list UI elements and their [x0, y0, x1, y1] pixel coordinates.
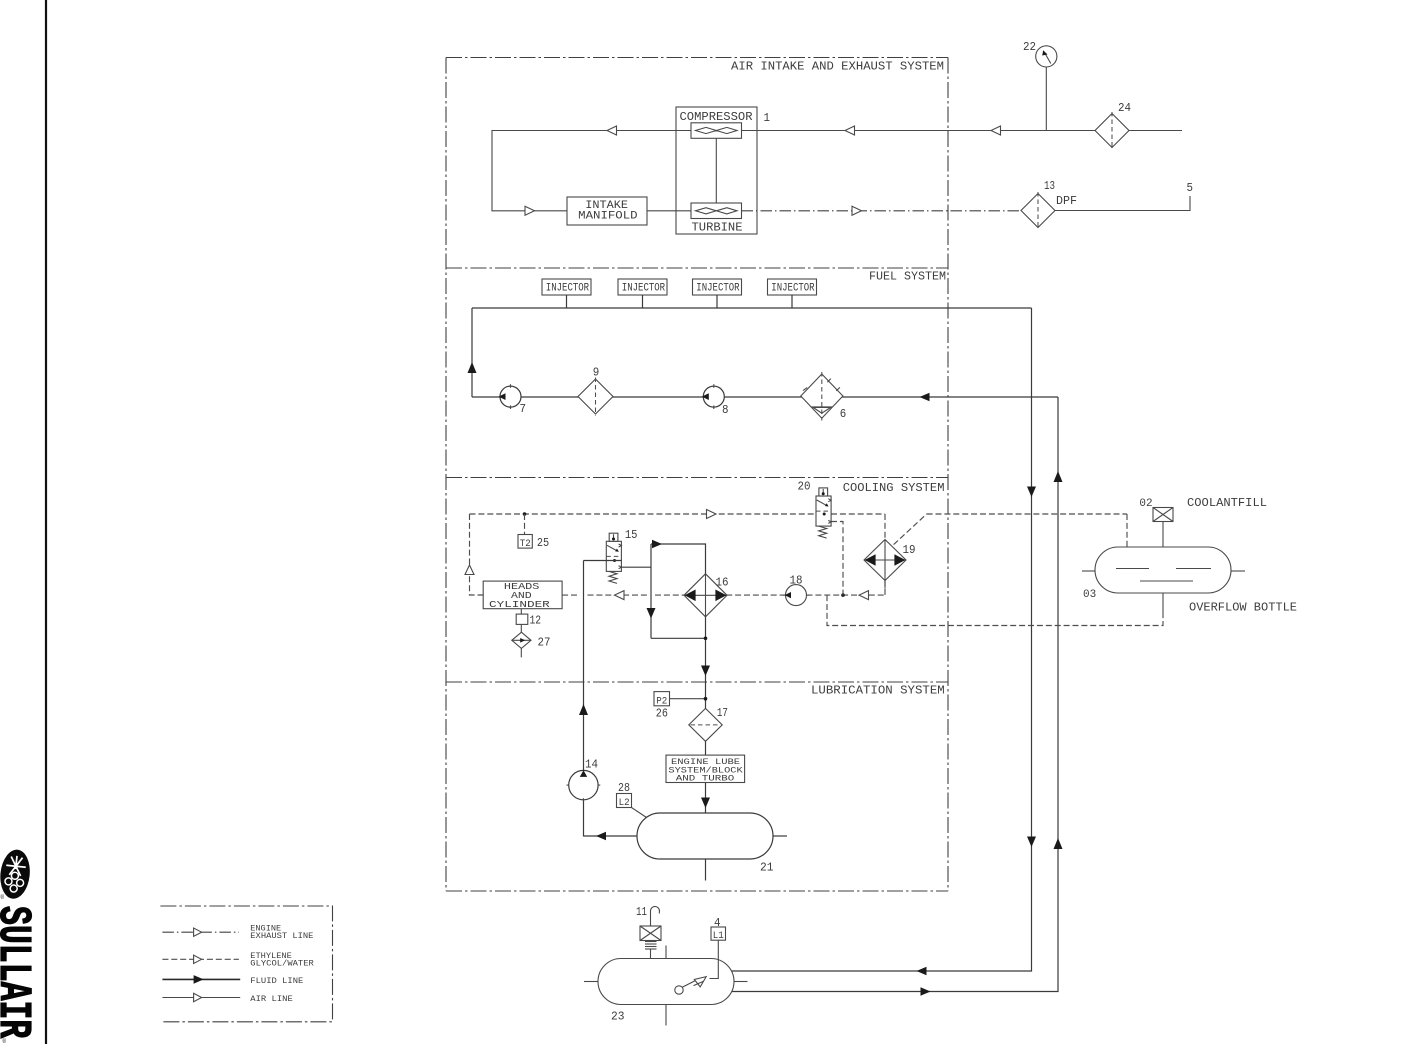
valve 27 diamond: [512, 632, 531, 648]
wire heads to sensor 12: [520, 609, 522, 614]
svg-text:7: 7: [520, 402, 527, 416]
svg-text:24: 24: [1118, 101, 1131, 115]
wire fuel return riser: [732, 308, 1032, 971]
wire L1 into tank: [710, 940, 719, 978]
arrow open left glycol to heads: [615, 591, 625, 600]
valve 20 solenoid: [798, 480, 832, 539]
arrow filled up fuel riser: [468, 362, 477, 373]
arrow open left air inlet 2: [991, 126, 1001, 135]
svg-text:12: 12: [530, 614, 542, 628]
svg-text:6: 6: [840, 407, 847, 421]
wire manifold to turbine: [647, 210, 691, 212]
wire P2 to main: [670, 698, 706, 700]
svg-text:20: 20: [798, 480, 811, 494]
wire gauge stem: [1045, 67, 1047, 131]
svg-text:1: 1: [764, 111, 771, 125]
radiator 19 diamond: [864, 540, 906, 581]
legend fluid arrow: [194, 975, 204, 984]
wire sump bottom stub: [705, 859, 707, 881]
arrow filled left sump out: [596, 832, 606, 841]
arrow open left on air line: [607, 126, 617, 135]
heads and cylinder box: [483, 581, 562, 609]
sensor P2 box 26: [654, 692, 670, 706]
wire tank left stub: [584, 981, 598, 983]
legend glycol arrow: [194, 955, 202, 963]
wire glycol top dashed line: [470, 513, 817, 515]
svg-text:02: 02: [1139, 498, 1152, 510]
fuel tank 23: [598, 959, 734, 1005]
svg-text:8: 8: [722, 403, 729, 417]
arrow open left air inlet 1: [845, 126, 855, 135]
wire injector stub 4: [791, 295, 793, 308]
svg-text:COMPRESSOR: COMPRESSOR: [680, 110, 753, 124]
legend fluid line sample: [162, 978, 240, 980]
node junction T2 tap: [523, 512, 527, 516]
svg-text:DPF: DPF: [1056, 194, 1077, 208]
pump 18: [786, 585, 807, 606]
svg-text:21: 21: [760, 861, 774, 875]
wire injector stub 3: [716, 295, 718, 308]
sensor L2 box: [617, 794, 632, 808]
shaft wire compressor-turbine: [715, 138, 717, 203]
intake manifold box: [567, 197, 647, 225]
wire overflow bottle bottom stub: [1162, 593, 1164, 616]
wire fuel rail: [472, 307, 1032, 309]
arrow filled left return to tank: [917, 967, 927, 976]
svg-text:13: 13: [1044, 179, 1055, 193]
wire exhaust dash-dot from turbine: [742, 210, 1022, 212]
svg-text:17: 17: [717, 706, 728, 720]
wire oil main riser: [583, 561, 585, 837]
arrow filled left on fuel supply: [920, 393, 930, 402]
oil cooler 16 diamond: [684, 574, 727, 617]
wire 12 to valve 27: [520, 624, 522, 657]
system boxes dash-dot borders: [446, 57, 948, 59]
wire air inlet from right: [742, 130, 1183, 132]
svg-text:COOLING SYSTEM: COOLING SYSTEM: [843, 481, 945, 495]
node valve 20 port: [823, 513, 826, 516]
node valve 15 port: [613, 559, 616, 562]
arrow filled right cooler feed: [652, 540, 662, 549]
svg-text:18: 18: [790, 574, 803, 588]
svg-text:SULLAIR: SULLAIR: [0, 906, 38, 1039]
wire to cooler top: [651, 544, 706, 574]
legend exhaust arrow: [194, 928, 202, 936]
compressor symbol 1: [691, 123, 742, 139]
Sullair emblem ellipse: [0, 848, 32, 900]
sensor T2 box 25: [518, 535, 532, 549]
turbine symbol: [691, 203, 742, 219]
wire injector stub 2: [642, 295, 644, 308]
gauge 22: [1036, 46, 1057, 67]
breather screen: [645, 941, 657, 943]
wire glycol left drop: [470, 514, 484, 595]
legend ethylene glycol line sample: [162, 958, 239, 960]
svg-text:L2: L2: [619, 797, 630, 809]
wire glycol pump to radiator: [807, 594, 886, 596]
wire breather to tank: [650, 949, 652, 959]
arrow open left glycol return: [859, 591, 869, 600]
filter 24 diamond: [1095, 114, 1129, 148]
svg-text:EXHAUST LINE: EXHAUST LINE: [250, 931, 313, 941]
svg-text:AIR INTAKE AND EXHAUST SYSTEM: AIR INTAKE AND EXHAUST SYSTEM: [731, 60, 944, 74]
engine lube system box: [666, 755, 745, 782]
svg-text:23: 23: [611, 1010, 625, 1024]
arrow open right glycol: [707, 510, 717, 519]
svg-text:COOLANTFILL: COOLANTFILL: [1187, 496, 1267, 510]
wire coolant fill drop dashed: [1126, 514, 1128, 549]
wire fuel riser left: [471, 308, 473, 397]
wire glycol overflow bottom dashed: [827, 595, 1163, 625]
wire engine lube to sump: [705, 783, 707, 814]
arrow filled down bypass: [647, 608, 656, 619]
arrow filled down to lube: [701, 666, 710, 677]
pump 7: [500, 386, 521, 407]
svg-text:9: 9: [593, 366, 600, 380]
tank internal check valve: [675, 986, 683, 994]
filter 9 diamond: [578, 379, 613, 414]
svg-text:LUBRICATION SYSTEM: LUBRICATION SYSTEM: [811, 684, 945, 698]
breather 11 hook: [650, 906, 659, 926]
svg-text:INJECTOR: INJECTOR: [696, 283, 740, 295]
svg-text:MANIFOLD: MANIFOLD: [578, 210, 637, 222]
wire sump right stub: [773, 835, 787, 837]
node P2 junction: [704, 697, 708, 701]
svg-text:P2: P2: [656, 695, 667, 707]
injector box 3: [693, 279, 742, 295]
svg-text:22: 22: [1023, 40, 1036, 54]
arrow filled down return 2: [1027, 837, 1036, 848]
wire exhaust outlet: [1055, 196, 1190, 211]
wire fuel pickup riser: [732, 397, 1058, 992]
svg-text:AIR LINE: AIR LINE: [250, 994, 292, 1004]
arrow open up glycol left: [465, 565, 474, 575]
legend box: [160, 906, 332, 1022]
legend engine exhaust line sample: [162, 931, 239, 933]
wire valve 20 drop dashed: [831, 522, 843, 596]
svg-text:FLUID LINE: FLUID LINE: [250, 976, 303, 986]
svg-text:19: 19: [903, 543, 916, 557]
pump 14: [569, 770, 598, 799]
svg-text:5: 5: [1187, 181, 1194, 195]
wire oil feed horizontal: [584, 560, 622, 562]
svg-text:14: 14: [585, 757, 598, 771]
injector box 2: [618, 279, 667, 295]
svg-text:CYLINDER: CYLINDER: [489, 600, 551, 610]
svg-text:OVERFLOW BOTTLE: OVERFLOW BOTTLE: [1189, 601, 1297, 615]
svg-text:INJECTOR: INJECTOR: [622, 283, 666, 295]
svg-text:15: 15: [625, 528, 638, 542]
oil filter 17 diamond: [689, 708, 722, 741]
turbocharger U1 outer box: [676, 107, 757, 234]
svg-text:®: ®: [1, 894, 5, 901]
arrow filled right from tank: [921, 987, 931, 996]
DPF filter 13 diamond: [1021, 194, 1055, 228]
wire sump to pump 14: [584, 835, 638, 837]
svg-text:L1: L1: [713, 930, 724, 942]
svg-text:TURBINE: TURBINE: [692, 221, 743, 235]
injector box 4: [768, 279, 817, 295]
wire air line compressor to left loop: [492, 131, 691, 211]
arrow open right exhaust: [852, 206, 862, 215]
valve 15 solenoid: [606, 528, 637, 583]
svg-text:27: 27: [538, 636, 551, 650]
svg-text:26: 26: [656, 707, 668, 721]
wire tank top stub: [665, 946, 667, 959]
svg-text:16: 16: [716, 576, 729, 590]
node junction valve 20 drop: [841, 593, 845, 597]
coolant fill cap 02: [1153, 508, 1173, 522]
svg-text:25: 25: [537, 536, 549, 550]
wire tank bottom stub: [665, 1005, 667, 1026]
wire injector stub 1: [566, 295, 568, 308]
wire fuel supply line: [472, 396, 1058, 398]
svg-text:®: ®: [3, 1038, 7, 1044]
wire bypass vertical: [650, 544, 652, 638]
wire L2 leader: [632, 808, 650, 820]
svg-text:GLYCOL/WATER: GLYCOL/WATER: [250, 959, 313, 969]
svg-text:INJECTOR: INJECTOR: [771, 283, 815, 295]
svg-text:28: 28: [618, 781, 630, 795]
svg-text:AND TURBO: AND TURBO: [676, 773, 735, 783]
sensor box 12: [516, 614, 528, 624]
injector box 1: [542, 279, 591, 295]
radiator 19 connections dashed: [884, 514, 886, 540]
oil sump tank 21: [637, 813, 773, 859]
node bypass junction: [704, 637, 708, 641]
page left border line: [45, 0, 47, 1044]
legend air arrow: [194, 993, 202, 1001]
wire cooler outlet down: [705, 617, 707, 709]
arrow filled up pickup 2: [1054, 838, 1063, 849]
arrow filled up oil riser: [579, 704, 588, 715]
breather cap box: [640, 926, 661, 941]
svg-text:03: 03: [1083, 589, 1096, 601]
wire glycol heads line dashed: [562, 594, 579, 596]
svg-text:T2: T2: [520, 538, 531, 550]
arrow filled up pickup 1: [1054, 471, 1063, 482]
wire filter to engine lube box: [705, 741, 707, 755]
arrow filled down to sump: [701, 798, 710, 809]
sensor L1 box: [711, 927, 726, 940]
wire T2 drop: [524, 514, 526, 535]
overflow bottle 03: [1095, 547, 1231, 593]
wire bypass bottom to junction: [651, 637, 706, 639]
svg-text:11: 11: [636, 905, 647, 919]
wire tank right stub: [734, 981, 748, 983]
legend air line sample: [162, 997, 240, 999]
arrow open right to intake manifold: [525, 206, 535, 215]
svg-text:FUEL SYSTEM: FUEL SYSTEM: [869, 270, 946, 284]
filter 6 diamond with water separator: [801, 374, 843, 418]
arrow filled down return 1: [1027, 487, 1036, 498]
pump 8: [703, 386, 724, 407]
wire valve 15 to bypass: [621, 566, 651, 568]
svg-text:INJECTOR: INJECTOR: [546, 283, 590, 295]
